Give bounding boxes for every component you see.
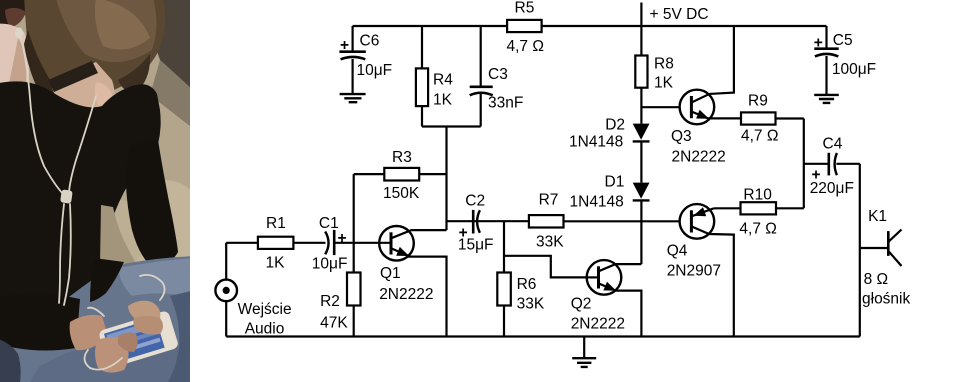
svg-text:2N2222: 2N2222 (571, 316, 625, 333)
svg-text:10μF: 10μF (357, 62, 393, 79)
svg-text:Audio: Audio (245, 320, 285, 337)
svg-text:220μF: 220μF (810, 180, 854, 197)
svg-text:R5: R5 (515, 0, 535, 17)
svg-text:R8: R8 (654, 55, 674, 72)
svg-text:2N2222: 2N2222 (672, 148, 726, 165)
svg-text:R1: R1 (266, 215, 286, 232)
svg-text:33K: 33K (536, 233, 564, 250)
svg-text:1N4148: 1N4148 (569, 134, 623, 151)
svg-text:100μF: 100μF (832, 61, 876, 78)
svg-text:4,7 Ω: 4,7 Ω (741, 128, 778, 145)
svg-text:R2: R2 (320, 293, 340, 310)
svg-text:+: + (814, 35, 823, 52)
svg-text:K1: K1 (868, 208, 887, 225)
svg-text:R7: R7 (539, 192, 559, 209)
svg-text:10μF: 10μF (312, 256, 348, 273)
svg-text:C6: C6 (360, 33, 380, 50)
svg-text:15μF: 15μF (458, 237, 494, 254)
svg-text:150K: 150K (383, 185, 420, 202)
svg-text:Wejście: Wejście (238, 301, 292, 318)
svg-text:1N4148: 1N4148 (570, 193, 624, 210)
svg-text:1K: 1K (266, 255, 286, 272)
svg-text:C4: C4 (823, 136, 843, 153)
svg-text:4,7 Ω: 4,7 Ω (739, 221, 776, 238)
svg-text:głośnik: głośnik (862, 291, 910, 308)
svg-text:C3: C3 (488, 66, 508, 83)
svg-text:1K: 1K (654, 75, 674, 92)
svg-text:2N2222: 2N2222 (379, 286, 433, 303)
svg-text:C2: C2 (465, 192, 485, 209)
svg-text:R4: R4 (433, 72, 453, 89)
svg-text:C5: C5 (833, 32, 853, 49)
svg-text:+ 5V DC: + 5V DC (650, 6, 709, 23)
svg-text:Q1: Q1 (380, 265, 401, 282)
svg-text:4,7 Ω: 4,7 Ω (507, 38, 544, 55)
svg-text:47K: 47K (320, 315, 348, 332)
svg-text:8 Ω: 8 Ω (864, 271, 889, 288)
svg-text:D1: D1 (605, 173, 625, 190)
svg-text:+: + (338, 230, 347, 247)
svg-text:Q4: Q4 (667, 243, 688, 260)
svg-text:R9: R9 (748, 93, 768, 110)
svg-text:+: + (340, 37, 349, 54)
svg-text:D2: D2 (605, 117, 625, 134)
svg-text:C1: C1 (319, 215, 339, 232)
svg-text:Q3: Q3 (671, 128, 692, 145)
svg-text:R10: R10 (743, 187, 772, 204)
svg-text:Q2: Q2 (571, 296, 592, 313)
svg-text:33nF: 33nF (488, 95, 523, 112)
svg-text:2N2907: 2N2907 (667, 263, 721, 280)
svg-text:R3: R3 (392, 149, 412, 166)
svg-text:1K: 1K (433, 91, 453, 108)
svg-text:R6: R6 (517, 276, 537, 293)
svg-text:33K: 33K (517, 296, 545, 313)
